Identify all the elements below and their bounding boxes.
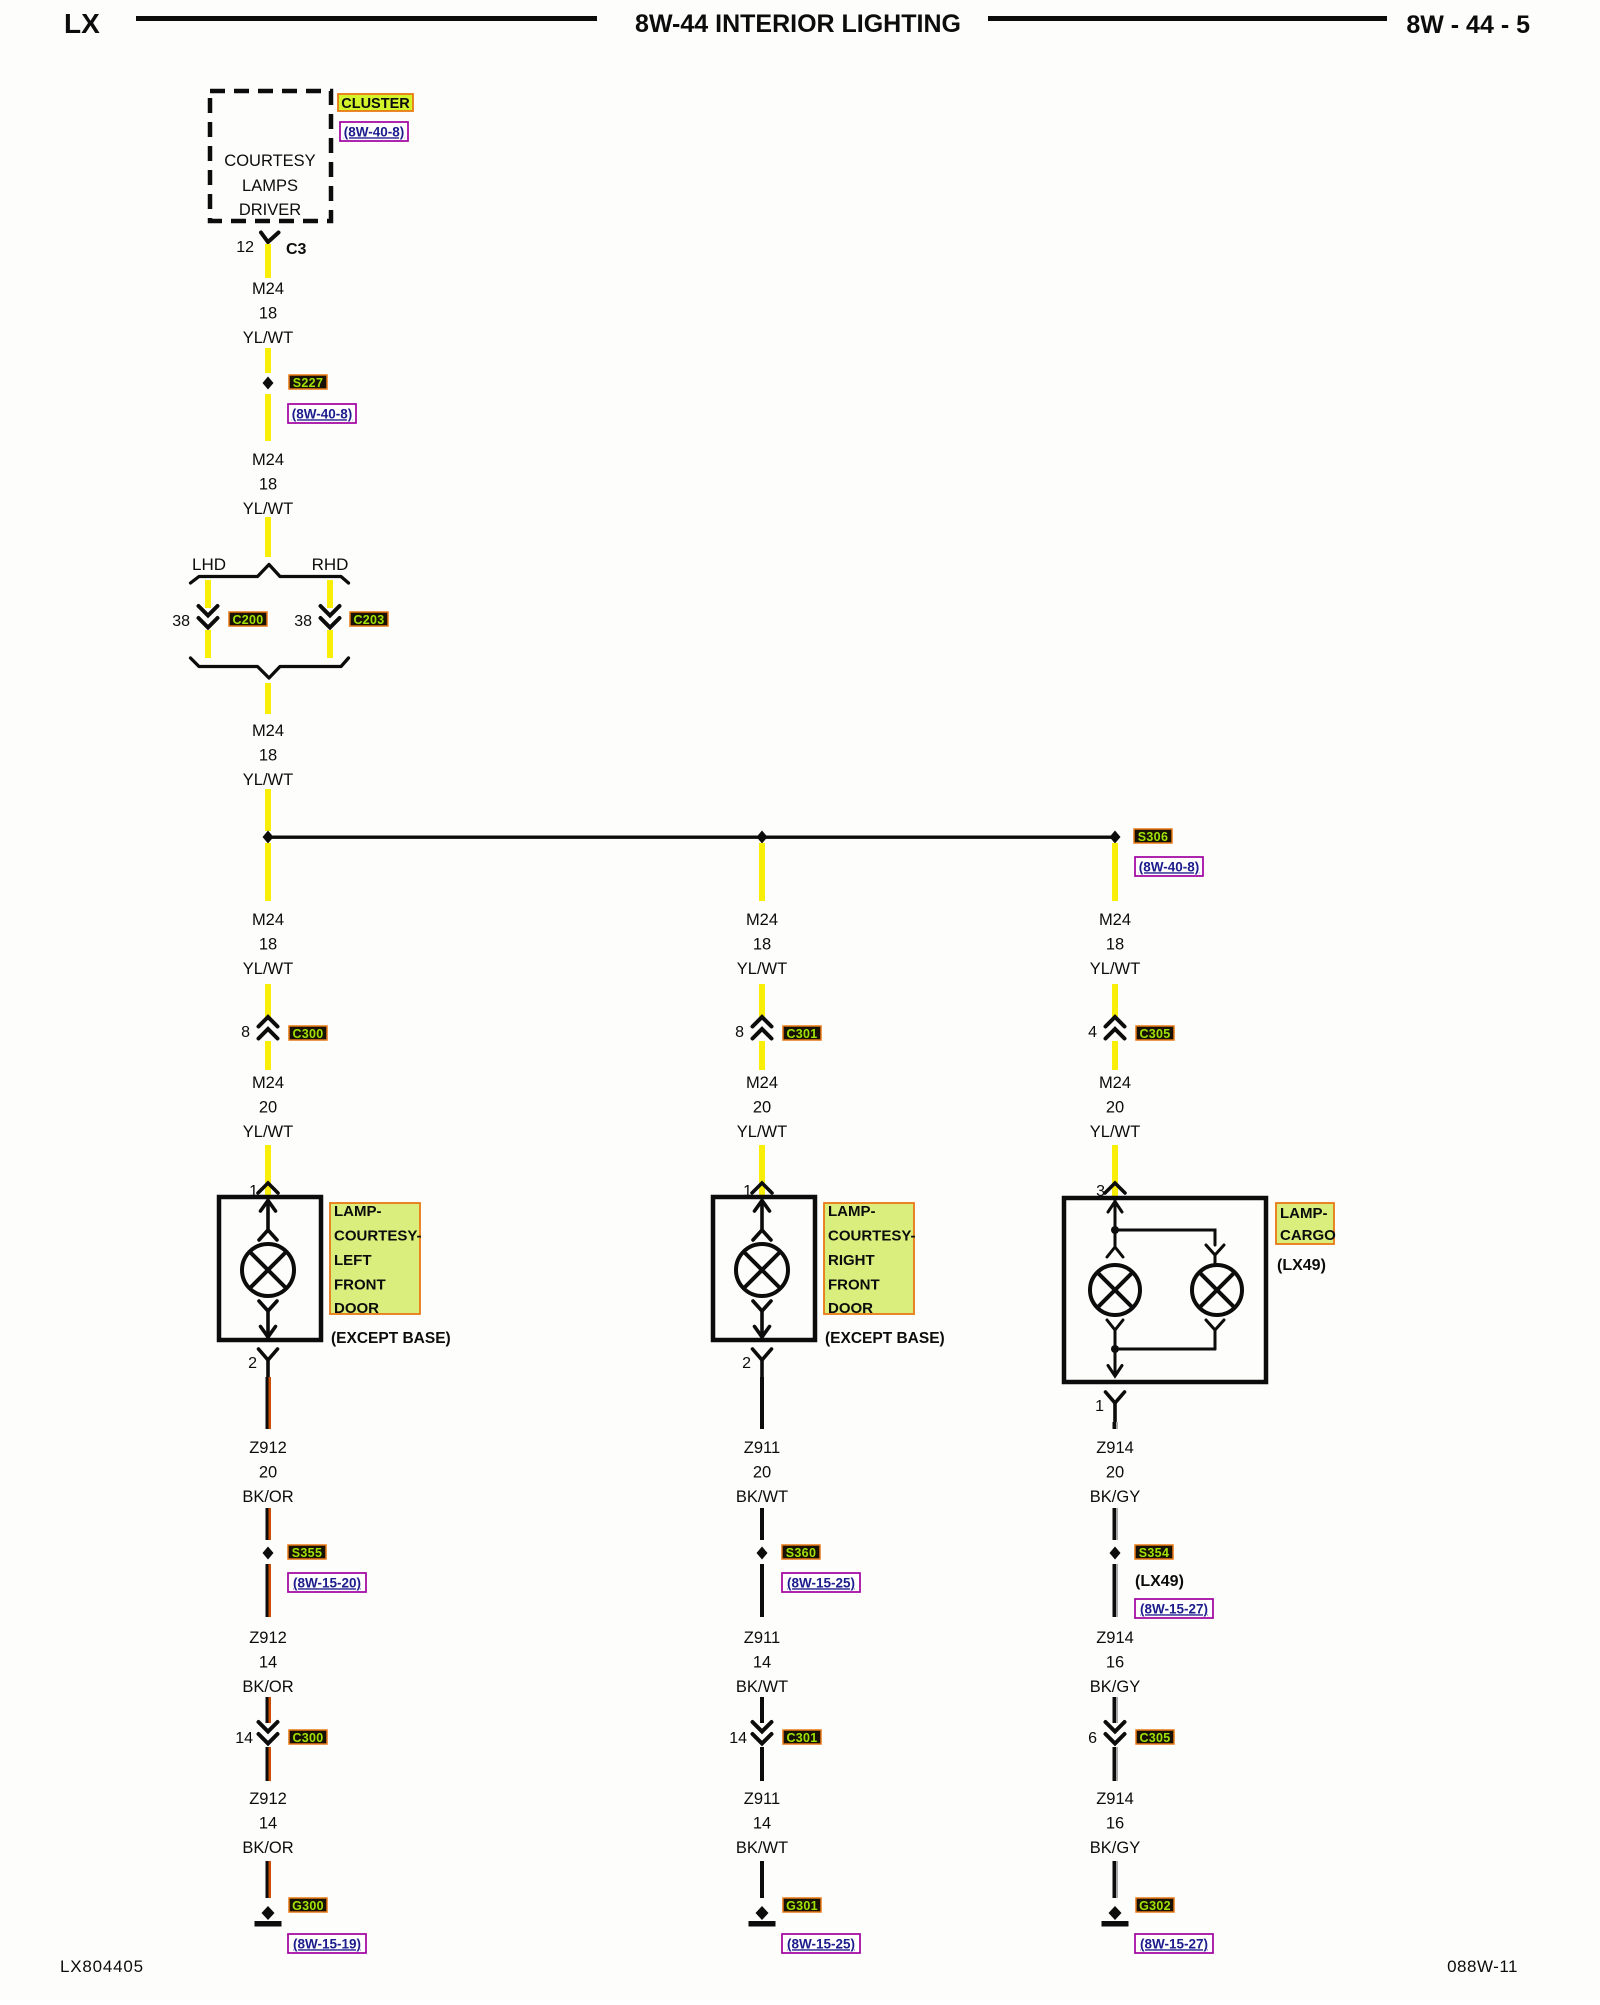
- svg-text:8: 8: [241, 1024, 250, 1041]
- svg-text:M24: M24: [746, 1074, 778, 1092]
- cargo lamp internal wiring top: [1107, 1201, 1224, 1263]
- brace split top: [191, 565, 349, 584]
- wire Z911 to ground G301: [760, 1861, 764, 1898]
- svg-text:CLUSTER: CLUSTER: [341, 96, 410, 112]
- svg-text:C203: C203: [353, 613, 384, 627]
- connector symbol C203 inline connector: [321, 606, 340, 628]
- svg-text:20: 20: [753, 1099, 771, 1117]
- svg-text:16: 16: [1106, 1815, 1124, 1833]
- svg-text:14: 14: [235, 1730, 253, 1747]
- wire Z912 below S355: [266, 1564, 272, 1617]
- label C200: [229, 612, 267, 627]
- wire label M24 18 YL/WT (3): [243, 722, 293, 789]
- svg-text:M24: M24: [252, 1074, 284, 1092]
- svg-text:C300: C300: [292, 1731, 323, 1745]
- svg-text:C305: C305: [1139, 1731, 1170, 1745]
- wire label Z912 14 BK/OR (1): [242, 1629, 293, 1696]
- svg-text:C305: C305: [1139, 1027, 1170, 1041]
- svg-text:18: 18: [259, 305, 277, 323]
- svg-text:M24: M24: [1099, 1074, 1131, 1092]
- label LAMP-COURTESY-LEFT FRONT DOOR: [330, 1203, 422, 1317]
- wire Z914 below S354: [1113, 1564, 1119, 1617]
- svg-text:(EXCEPT BASE): (EXCEPT BASE): [825, 1330, 945, 1347]
- link 8W-15-19 reference under G300: [288, 1934, 366, 1953]
- wire label M24 18 YL/WT (2): [243, 451, 293, 518]
- connector symbol C301 inline connector lower: [753, 1722, 772, 1744]
- svg-text:LAMPS: LAMPS: [242, 177, 298, 195]
- wire M24 segment above LHD/RHD split: [265, 517, 271, 557]
- svg-text:C301: C301: [786, 1027, 817, 1041]
- svg-text:(LX49): (LX49): [1277, 1257, 1326, 1274]
- svg-text:BK/WT: BK/WT: [736, 1839, 788, 1857]
- label S227: [289, 375, 327, 390]
- svg-text:S227: S227: [293, 376, 323, 390]
- wire M24 segment above splice S306 bus: [265, 789, 271, 831]
- svg-text:M24: M24: [746, 911, 778, 929]
- cargo junction node top: [1111, 1226, 1119, 1234]
- svg-text:LX804405: LX804405: [60, 1957, 144, 1976]
- svg-text:RIGHT: RIGHT: [828, 1252, 875, 1269]
- svg-text:YL/WT: YL/WT: [737, 1123, 787, 1141]
- svg-text:Z911: Z911: [744, 1439, 780, 1457]
- svg-text:COURTESY: COURTESY: [224, 152, 315, 170]
- label LAMP-COURTESY-RIGHT FRONT DOOR: [824, 1203, 916, 1317]
- lamp bulb symbol cargo bulb left: [1090, 1265, 1140, 1315]
- svg-text:(8W-40-8): (8W-40-8): [344, 124, 405, 139]
- svg-text:2: 2: [248, 1355, 257, 1372]
- svg-text:(8W-15-27): (8W-15-27): [1140, 1936, 1208, 1951]
- svg-text:LAMP-: LAMP-: [1280, 1205, 1328, 1222]
- svg-text:COURTESY-: COURTESY-: [828, 1228, 916, 1245]
- svg-text:4: 4: [1088, 1024, 1097, 1041]
- link 8W-15-20 reference under S355: [288, 1573, 366, 1592]
- svg-text:C300: C300: [292, 1027, 323, 1041]
- wire label Z911 20 BK/WT: [736, 1439, 788, 1506]
- svg-text:(8W-15-19): (8W-15-19): [293, 1936, 361, 1951]
- wire M24 18 YL/WT segment below C3: [265, 244, 271, 278]
- svg-text:BK/OR: BK/OR: [242, 1488, 293, 1506]
- wire Z912 below C300 lower: [266, 1747, 272, 1781]
- splice node S360: [757, 1547, 768, 1560]
- svg-text:YL/WT: YL/WT: [243, 500, 293, 518]
- svg-text:BK/WT: BK/WT: [736, 1488, 788, 1506]
- svg-text:BK/OR: BK/OR: [242, 1678, 293, 1696]
- lamp internal bottom arrow: [259, 1301, 277, 1337]
- svg-text:12: 12: [236, 239, 254, 256]
- svg-text:LHD: LHD: [192, 555, 226, 574]
- wire Z912 to ground G300: [266, 1861, 272, 1898]
- svg-text:BK/OR: BK/OR: [242, 1839, 293, 1857]
- wire Z911 below S360: [760, 1564, 764, 1617]
- connector pin symbol cargo lamp pin 3: [1105, 1183, 1125, 1193]
- ground G302: [1102, 1906, 1129, 1927]
- svg-text:COURTESY-: COURTESY-: [334, 1228, 422, 1245]
- svg-text:LAMP-: LAMP-: [334, 1203, 382, 1220]
- svg-text:(8W-15-20): (8W-15-20): [293, 1575, 361, 1590]
- svg-text:G302: G302: [1139, 1899, 1171, 1913]
- svg-text:18: 18: [1106, 936, 1124, 954]
- wire label M24 20 YL/WT branch x=1115: [1090, 1074, 1140, 1141]
- wire label M24 18 YL/WT branch x=268: [243, 911, 293, 978]
- svg-text:YL/WT: YL/WT: [1090, 1123, 1140, 1141]
- connector symbol C200 inline connector: [199, 606, 218, 628]
- svg-text:S360: S360: [786, 1546, 816, 1560]
- splice node S227: [263, 377, 274, 390]
- ground G300: [255, 1906, 282, 1927]
- svg-text:M24: M24: [252, 722, 284, 740]
- wire label Z912 14 BK/OR (2): [242, 1790, 293, 1857]
- svg-text:M24: M24: [252, 911, 284, 929]
- label G301: [783, 1898, 821, 1913]
- label C203: [350, 612, 388, 627]
- bus wire to S306: [268, 836, 1115, 839]
- svg-text:38: 38: [172, 613, 190, 630]
- wire label M24 20 YL/WT branch x=762: [737, 1074, 787, 1141]
- wire label M24 20 YL/WT branch x=268: [243, 1074, 293, 1141]
- ground G301: [749, 1906, 776, 1927]
- svg-text:20: 20: [753, 1464, 771, 1482]
- svg-text:LEFT: LEFT: [334, 1252, 372, 1269]
- svg-text:YL/WT: YL/WT: [243, 329, 293, 347]
- svg-text:YL/WT: YL/WT: [1090, 960, 1140, 978]
- connector pin symbol lamp left pin 1: [258, 1183, 278, 1193]
- module CLUSTER / COURTESY LAMPS DRIVER dashed box: [210, 91, 331, 221]
- link 8W-15-27 reference under G302: [1135, 1934, 1213, 1953]
- svg-text:8W-44 INTERIOR LIGHTING: 8W-44 INTERIOR LIGHTING: [635, 10, 961, 38]
- svg-text:G300: G300: [292, 1899, 324, 1913]
- cargo junction node bottom: [1111, 1345, 1119, 1353]
- wire M24 branch below bus at x=268: [265, 843, 271, 901]
- svg-text:8W - 44 - 5: 8W - 44 - 5: [1406, 11, 1530, 39]
- wire label Z914 16 BK/GY (1): [1090, 1629, 1140, 1696]
- connector pin symbol right lamp pin 2: [753, 1349, 772, 1377]
- wire Z912 stub below pin 2: [266, 1377, 272, 1429]
- svg-text:LX: LX: [64, 8, 100, 39]
- wire label Z911 14 BK/WT (2): [736, 1790, 788, 1857]
- svg-text:16: 16: [1106, 1654, 1124, 1672]
- svg-text:S355: S355: [292, 1546, 322, 1560]
- connector pin symbol cargo lamp pin 1: [1106, 1392, 1125, 1422]
- wire M24 into lamp at x=268: [265, 1145, 271, 1196]
- brace merge bottom: [191, 658, 349, 678]
- header rule right: [988, 16, 1387, 21]
- svg-text:(8W-40-8): (8W-40-8): [1139, 859, 1200, 874]
- svg-text:S306: S306: [1138, 830, 1168, 844]
- svg-text:C200: C200: [232, 613, 263, 627]
- link 8W-15-27 reference under S354: [1135, 1599, 1213, 1618]
- lamp courtesy right front door box: [713, 1197, 815, 1340]
- lamp cargo box: [1064, 1198, 1266, 1382]
- svg-text:FRONT: FRONT: [334, 1277, 386, 1294]
- label C300: [289, 1026, 327, 1041]
- svg-text:20: 20: [259, 1464, 277, 1482]
- label G302: [1136, 1898, 1174, 1913]
- svg-text:C301: C301: [786, 1731, 817, 1745]
- wire RHD branch M24 lower: [327, 630, 333, 658]
- connector pin symbol left lamp pin 2: [259, 1349, 278, 1377]
- wire label Z914 20 BK/GY: [1090, 1439, 1140, 1506]
- wire LHD branch M24 upper: [205, 580, 211, 608]
- wire M24 into lamp at x=1115: [1112, 1145, 1118, 1196]
- wire Z911 stub below pin 2: [760, 1377, 764, 1429]
- wire Z911 above S360: [760, 1508, 764, 1540]
- svg-text:C3: C3: [286, 241, 307, 258]
- svg-text:Z914: Z914: [1096, 1629, 1134, 1647]
- wire label M24 18 YL/WT branch x=762: [737, 911, 787, 978]
- lamp bulb symbol left courtesy bulb: [242, 1244, 294, 1296]
- svg-text:Z911: Z911: [744, 1629, 780, 1647]
- svg-text:(8W-15-27): (8W-15-27): [1140, 1601, 1208, 1616]
- splice node S306 junction middle: [757, 831, 768, 844]
- wire M24 below C300: [265, 1041, 271, 1070]
- wire LHD branch M24 lower: [205, 630, 211, 658]
- svg-text:14: 14: [259, 1654, 277, 1672]
- svg-text:20: 20: [1106, 1464, 1124, 1482]
- svg-text:FRONT: FRONT: [828, 1277, 880, 1294]
- svg-text:RHD: RHD: [312, 555, 349, 574]
- lamp courtesy left front door box: [219, 1197, 321, 1340]
- svg-text:20: 20: [1106, 1099, 1124, 1117]
- label C301: [783, 1026, 821, 1041]
- svg-text:BK/GY: BK/GY: [1090, 1678, 1140, 1696]
- wire label Z914 16 BK/GY (2): [1090, 1790, 1140, 1857]
- svg-text:BK/GY: BK/GY: [1090, 1488, 1140, 1506]
- svg-text:Z914: Z914: [1096, 1439, 1134, 1457]
- svg-text:14: 14: [259, 1815, 277, 1833]
- connector pin symbol C3 pin 12: [261, 233, 279, 243]
- svg-text:M24: M24: [252, 280, 284, 298]
- label C300 lower: [289, 1730, 327, 1745]
- wire M24 into lamp at x=762: [759, 1145, 765, 1196]
- svg-text:18: 18: [259, 476, 277, 494]
- wire M24 merged segment: [265, 683, 271, 714]
- wire M24 segment above splice S227: [265, 348, 271, 373]
- wire M24 above C300: [265, 984, 271, 1017]
- svg-text:DRIVER: DRIVER: [239, 201, 301, 219]
- svg-text:18: 18: [753, 936, 771, 954]
- svg-text:18: 18: [259, 936, 277, 954]
- svg-text:088W-11: 088W-11: [1447, 1957, 1518, 1976]
- svg-text:DOOR: DOOR: [334, 1300, 379, 1317]
- link 8W-40-8 reference under CLUSTER: [340, 122, 408, 141]
- svg-text:YL/WT: YL/WT: [737, 960, 787, 978]
- header rule left: [136, 16, 597, 21]
- connector symbol C300 inline connector lower: [259, 1722, 278, 1744]
- svg-text:(8W-15-25): (8W-15-25): [787, 1936, 855, 1951]
- svg-text:14: 14: [729, 1730, 747, 1747]
- splice node S354: [1110, 1547, 1121, 1560]
- wire Z914 stub below pin 1: [1113, 1422, 1119, 1429]
- link 8W-15-25 reference under G301: [782, 1934, 860, 1953]
- svg-text:BK/WT: BK/WT: [736, 1678, 788, 1696]
- svg-text:38: 38: [294, 613, 312, 630]
- svg-text:(LX49): (LX49): [1135, 1573, 1184, 1590]
- svg-text:20: 20: [259, 1099, 277, 1117]
- lamp internal top arrow: [753, 1201, 771, 1241]
- cargo lamp internal wiring bottom: [1107, 1320, 1224, 1376]
- svg-text:14: 14: [753, 1654, 771, 1672]
- label S354: [1135, 1545, 1173, 1560]
- svg-text:YL/WT: YL/WT: [243, 960, 293, 978]
- wire Z911 above C301 lower: [760, 1697, 764, 1723]
- wire label M24 18 YL/WT branch x=1115: [1090, 911, 1140, 978]
- connector symbol C300 inline connector upper: [259, 1017, 278, 1039]
- splice node S306 junction right: [1110, 831, 1121, 844]
- connector pin symbol lamp right pin 1: [752, 1183, 772, 1193]
- wire RHD branch M24 upper: [327, 580, 333, 608]
- wire Z912 above C300 lower: [266, 1697, 272, 1723]
- svg-text:S354: S354: [1139, 1546, 1169, 1560]
- wire M24 above C301: [759, 984, 765, 1017]
- label C301 lower: [783, 1730, 821, 1745]
- wire Z914 above C305 lower: [1113, 1697, 1119, 1723]
- svg-text:YL/WT: YL/WT: [243, 1123, 293, 1141]
- svg-text:G301: G301: [786, 1899, 818, 1913]
- svg-text:2: 2: [742, 1355, 751, 1372]
- svg-text:6: 6: [1088, 1730, 1097, 1747]
- label LAMP-CARGO: [1276, 1203, 1336, 1244]
- svg-text:Z914: Z914: [1096, 1790, 1134, 1808]
- wire label M24 18 YL/WT (1): [243, 280, 293, 347]
- lamp bulb symbol cargo bulb right: [1192, 1265, 1242, 1315]
- lamp internal bottom arrow: [753, 1301, 771, 1337]
- svg-text:1: 1: [1095, 1398, 1104, 1415]
- label C305: [1136, 1026, 1174, 1041]
- svg-text:Z912: Z912: [249, 1629, 287, 1647]
- wire Z912 above S355: [266, 1508, 272, 1540]
- svg-text:BK/GY: BK/GY: [1090, 1839, 1140, 1857]
- wire M24 branch below bus at x=1115: [1112, 843, 1118, 901]
- splice node S355: [263, 1547, 274, 1560]
- wire M24 above C305: [1112, 984, 1118, 1017]
- svg-text:Z912: Z912: [249, 1790, 287, 1808]
- wire label Z912 20 BK/OR: [242, 1439, 293, 1506]
- lamp bulb symbol right courtesy bulb: [736, 1244, 788, 1296]
- link 8W-40-8 reference under S227: [288, 404, 356, 423]
- svg-text:8: 8: [735, 1024, 744, 1041]
- svg-text:CARGO: CARGO: [1280, 1227, 1336, 1244]
- svg-text:(EXCEPT BASE): (EXCEPT BASE): [331, 1330, 451, 1347]
- wire Z914 above S354: [1113, 1508, 1119, 1540]
- svg-text:LAMP-: LAMP-: [828, 1203, 876, 1220]
- label S306: [1134, 829, 1172, 844]
- splice node S306 junction left: [263, 831, 274, 844]
- svg-text:DOOR: DOOR: [828, 1300, 873, 1317]
- label C305 lower: [1136, 1730, 1174, 1745]
- wire Z914 to ground G302: [1113, 1861, 1119, 1898]
- svg-text:YL/WT: YL/WT: [243, 771, 293, 789]
- svg-text:M24: M24: [252, 451, 284, 469]
- wire Z914 below C305 lower: [1113, 1747, 1119, 1781]
- link 8W-15-25 reference under S360: [782, 1573, 860, 1592]
- label G300: [289, 1898, 327, 1913]
- wire label Z911 14 BK/WT (1): [736, 1629, 788, 1696]
- lamp internal top arrow: [259, 1201, 277, 1241]
- connector symbol C305 inline connector lower: [1106, 1722, 1125, 1744]
- label S360: [782, 1545, 820, 1560]
- label CLUSTER: [338, 94, 413, 112]
- svg-text:M24: M24: [1099, 911, 1131, 929]
- wire Z911 below C301 lower: [760, 1747, 764, 1781]
- svg-text:(8W-40-8): (8W-40-8): [292, 406, 353, 421]
- connector symbol C305 inline connector upper: [1106, 1017, 1125, 1039]
- svg-text:(8W-15-25): (8W-15-25): [787, 1575, 855, 1590]
- connector symbol C301 inline connector upper: [753, 1017, 772, 1039]
- wire M24 below C301: [759, 1041, 765, 1070]
- label S355: [288, 1545, 326, 1560]
- link 8W-40-8 reference under S306: [1135, 857, 1203, 876]
- wire M24 segment below S227: [265, 394, 271, 441]
- svg-text:Z912: Z912: [249, 1439, 287, 1457]
- svg-text:14: 14: [753, 1815, 771, 1833]
- svg-text:Z911: Z911: [744, 1790, 780, 1808]
- wire M24 below C305: [1112, 1041, 1118, 1070]
- svg-text:18: 18: [259, 747, 277, 765]
- wire M24 branch below bus at x=762: [759, 843, 765, 901]
